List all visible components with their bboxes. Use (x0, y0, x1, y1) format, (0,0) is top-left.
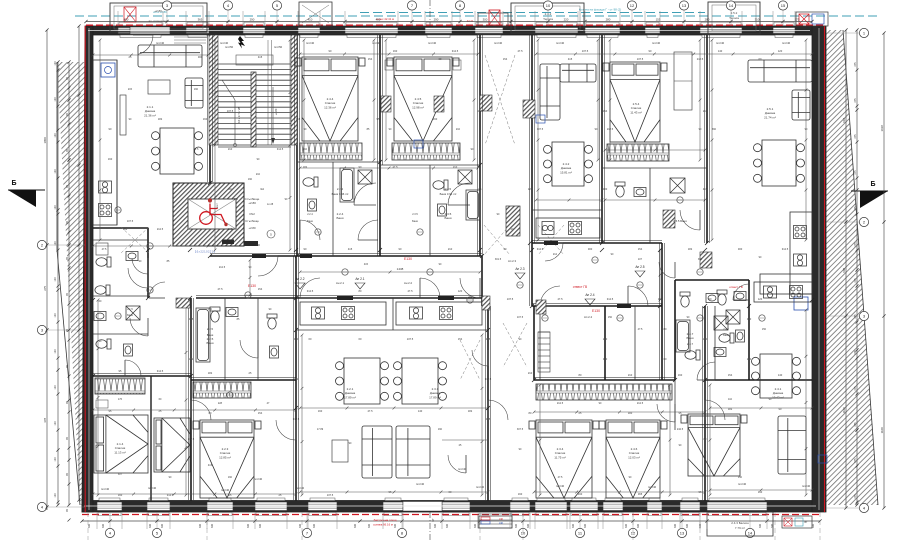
svg-text:154: 154 (728, 373, 733, 377)
svg-text:107.5: 107.5 (227, 109, 234, 113)
svg-text:7.79 m²: 7.79 m² (735, 526, 745, 530)
svg-text:12.36 m²: 12.36 m² (324, 105, 336, 109)
living D armchair (792, 90, 810, 120)
svg-text:154: 154 (458, 337, 463, 341)
long extension dashed verticals below (87, 512, 89, 540)
svg-text:300: 300 (394, 523, 397, 528)
svg-text:Баня: Баня (207, 333, 214, 337)
svg-text:275: 275 (854, 422, 857, 427)
apt B door (240, 340, 258, 358)
svg-text:Чк2: Чк2 (260, 188, 265, 191)
apt1 dashed X decoration (121, 227, 149, 253)
svg-text:2.3.5: 2.3.5 (412, 213, 418, 216)
bottom-left wardrobe (95, 378, 145, 394)
svg-text:415: 415 (568, 57, 573, 61)
dimension rows left side (46, 30, 48, 510)
white split line in top wall (88, 30, 810, 32)
svg-text:2.5.5 Баня: 2.5.5 Баня (673, 219, 687, 223)
apt E bath fixtures (717, 290, 727, 305)
svg-text:300: 300 (759, 523, 762, 528)
svg-text:160: 160 (658, 297, 663, 301)
svg-text:242.5: 242.5 (677, 428, 684, 431)
svg-text:300: 300 (515, 523, 518, 528)
svg-text:17.89 m²: 17.89 m² (344, 395, 356, 399)
svg-text:307.5: 307.5 (517, 428, 524, 431)
svg-text:2.4.7: 2.4.7 (723, 328, 729, 331)
svg-text:2.2.4: 2.2.4 (337, 187, 344, 191)
svg-text:275: 275 (854, 278, 857, 283)
interior walls layer (93, 35, 812, 501)
legend box bottom right with red (782, 516, 812, 528)
svg-text:Б: Б (11, 180, 16, 187)
axis circles right (826, 28, 869, 37)
apt C armchair (332, 440, 348, 462)
svg-text:275: 275 (854, 386, 857, 391)
svg-text:182: 182 (468, 409, 473, 413)
bedroom C bath fixtures (615, 182, 625, 197)
svg-text:вх. площадка: вх. площадка (149, 19, 168, 23)
dimension row below bottom wall (82, 520, 820, 522)
svg-text:120: 120 (54, 133, 57, 138)
svg-text:160: 160 (248, 178, 253, 181)
apt1 sofa (138, 45, 202, 67)
svg-text:160: 160 (438, 428, 443, 431)
svg-text:182: 182 (189, 357, 194, 361)
interior dimension lines with ticks (93, 54, 208, 56)
staircase treads (218, 36, 291, 147)
svg-text:150: 150 (256, 244, 261, 247)
red line left wall (84, 26, 86, 512)
svg-text:Колона на фасада Г - от 98 (2): Колона на фасада Г - от 98 (2) (579, 8, 622, 12)
corridor stair-step symbol at x540 (538, 332, 550, 372)
section line BT bottom (429, 512, 431, 540)
svg-text:415: 415 (296, 117, 301, 121)
tick cluster marks batch2 (146, 248, 150, 252)
svg-text:275: 275 (854, 242, 857, 247)
svg-text:415: 415 (703, 187, 708, 191)
apt C hall marks (472, 350, 488, 366)
svg-text:275: 275 (854, 170, 857, 175)
svg-text:nm=40: nm=40 (296, 486, 305, 490)
elevator shaft (hatched walls) (173, 183, 275, 254)
svg-text:2.1.5: 2.1.5 (127, 308, 133, 311)
svg-text:160: 160 (108, 157, 113, 161)
svg-text:312.5: 312.5 (167, 493, 174, 497)
svg-text:13: 13 (682, 3, 687, 8)
svg-text:nm=40: nm=40 (254, 477, 263, 481)
svg-text:Ап 2.5: Ап 2.5 (635, 265, 644, 269)
svg-text:300: 300 (446, 523, 449, 528)
windows in top wall (118, 22, 163, 37)
vent shaft hatched blocks (381, 96, 391, 112)
opening bottom centre (403, 502, 442, 512)
property boundary line right (843, 30, 878, 505)
svg-text:300: 300 (572, 523, 575, 528)
apt1 low table (148, 80, 170, 94)
svg-text:nm=40: nm=40 (716, 41, 725, 45)
svg-text:300: 300 (161, 523, 164, 528)
svg-text:300: 300 (199, 523, 202, 528)
hall dashed X marks (484, 225, 510, 255)
bedroom C door (680, 210, 700, 230)
svg-text:175: 175 (795, 17, 800, 21)
svg-text:240: 240 (499, 522, 504, 525)
living D kitchen counter vertical (760, 212, 812, 294)
bedroom A bed (295, 57, 365, 141)
stair central stringer (251, 72, 256, 147)
svg-text:182: 182 (303, 165, 308, 169)
svg-text:nm=40: nm=40 (782, 41, 791, 45)
svg-text:Стълбище: Стълбище (245, 219, 259, 223)
svg-text:140: 140 (418, 409, 423, 413)
svg-text:160: 160 (678, 373, 683, 377)
svg-text:10: 10 (521, 531, 526, 536)
right exterior wall (812, 26, 826, 512)
svg-text:210: 210 (228, 147, 233, 151)
bedroom B wardrobe (392, 143, 460, 160)
section line BT top (429, 0, 431, 26)
terrace hatch below bottom wall centre (478, 514, 512, 528)
svg-text:47.5: 47.5 (477, 109, 483, 113)
svg-text:312.5: 312.5 (607, 297, 614, 301)
apt B bed (193, 420, 261, 498)
svg-text:312.5: 312.5 (157, 369, 164, 373)
svg-text:nm=40: nm=40 (156, 41, 165, 45)
svg-text:2.2.4: 2.2.4 (307, 213, 313, 216)
cyan utility line (dashed, full width) (75, 15, 880, 17)
svg-text:2.4.7: 2.4.7 (687, 342, 694, 346)
svg-text:12.85 m²: 12.85 m² (219, 455, 231, 459)
svg-text:2.3.5: 2.3.5 (445, 187, 452, 191)
wall between bottom-left bedrooms (150, 376, 152, 501)
svg-text:1438: 1438 (397, 267, 404, 271)
svg-text:300: 300 (603, 187, 608, 191)
axis circles bottom (105, 512, 114, 538)
svg-text:280: 280 (606, 17, 611, 21)
svg-text:17.89: 17.89 (317, 428, 324, 431)
apt B hall fixtures (267, 314, 277, 329)
svg-text:11.43 m²: 11.43 m² (630, 110, 642, 114)
mid-right hall doors and fixtures (659, 262, 675, 278)
cyan utility line second segment (360, 12, 705, 14)
svg-text:300: 300 (637, 523, 640, 528)
apt C dining table 2 (394, 358, 447, 404)
svg-text:nm=40: nm=40 (148, 486, 157, 490)
windows in bottom wall (97, 498, 122, 516)
svg-text:nm=40: nm=40 (652, 41, 661, 45)
svg-text:300: 300 (294, 337, 299, 341)
svg-text:110: 110 (728, 398, 733, 401)
svg-text:47.5: 47.5 (194, 148, 199, 151)
svg-text:19.43 m²: 19.43 m² (772, 395, 784, 399)
svg-text:360: 360 (712, 128, 717, 131)
svg-text:120: 120 (54, 385, 57, 390)
svg-text:210: 210 (703, 109, 708, 113)
balcony below bottom wall right (707, 512, 773, 536)
svg-text:21.74 m²: 21.74 m² (764, 115, 776, 119)
axis circles left (37, 240, 85, 249)
svg-text:275: 275 (854, 458, 857, 463)
white split line in right wall (818, 28, 820, 510)
svg-text:290: 290 (250, 17, 255, 21)
svg-text:228: 228 (218, 402, 223, 405)
svg-text:Ап 2.3: Ап 2.3 (508, 259, 516, 263)
svg-text:300: 300 (747, 317, 752, 321)
apt D dashed X (503, 323, 527, 367)
svg-text:300: 300 (299, 523, 302, 528)
svg-text:11.75 m²: 11.75 m² (554, 455, 566, 459)
svg-text:107.5: 107.5 (507, 297, 514, 301)
stair landing dim box (236, 55, 273, 65)
apt D bed 2 (599, 420, 667, 498)
svg-text:400: 400 (376, 17, 381, 21)
stair right dim strip (267, 40, 269, 145)
svg-text:300: 300 (527, 523, 530, 528)
svg-text:160: 160 (578, 492, 583, 496)
svg-text:150: 150 (234, 198, 239, 201)
svg-text:120: 120 (758, 297, 763, 301)
svg-text:nm=50: nm=50 (225, 45, 234, 49)
svg-text:2.5.2: 2.5.2 (731, 11, 738, 15)
svg-text:120: 120 (54, 457, 57, 462)
svg-text:154: 154 (503, 57, 508, 61)
svg-text:16 х 17.5 / 28: 16 х 17.5 / 28 (237, 107, 241, 123)
living D stove and sink (794, 226, 807, 239)
svg-text:240: 240 (499, 518, 504, 521)
svg-text:210: 210 (256, 173, 261, 176)
living C kitchen sink and stove (542, 222, 554, 235)
svg-text:160: 160 (518, 492, 523, 496)
svg-text:12.03 m²: 12.03 m² (628, 455, 640, 459)
bottom-left bed 1 (94, 415, 148, 473)
svg-text:47.5: 47.5 (217, 287, 223, 291)
legend box bottom centre with red (479, 516, 512, 528)
bedroom B door (448, 183, 470, 205)
svg-text:160: 160 (228, 227, 233, 231)
apt B tub (196, 308, 210, 362)
bedroom A wardrobe (300, 143, 362, 160)
svg-text:107: 107 (638, 258, 643, 261)
svg-text:Баня 3.96 m²: Баня 3.96 m² (332, 192, 349, 196)
svg-text:107.5: 107.5 (407, 337, 414, 341)
elevator shaft lower extension wall (222, 240, 234, 245)
svg-text:365: 365 (486, 417, 491, 421)
red vent symbol at canopy (124, 7, 136, 22)
staircase side walls (hatched) (209, 35, 218, 145)
svg-text:160: 160 (228, 476, 233, 479)
svg-text:212: 212 (553, 253, 558, 256)
svg-text:1800: 1800 (43, 137, 47, 144)
svg-text:210: 210 (528, 371, 533, 375)
bedroom C wardrobe (607, 144, 669, 161)
svg-text:160: 160 (433, 117, 438, 121)
vent shaft with red marks x490 (467, 10, 508, 26)
svg-text:47.5: 47.5 (407, 289, 413, 293)
apt C sofa 2 (396, 426, 430, 478)
svg-text:nm=40: nm=40 (738, 482, 747, 486)
svg-text:Б: Б (870, 181, 875, 188)
svg-text:300: 300 (247, 523, 250, 528)
mid bath 2 fixtures (x440) (433, 180, 448, 190)
svg-text:275: 275 (854, 98, 857, 103)
svg-text:Баня: Баня (207, 341, 214, 345)
lower-left bathroom2 fixtures (95, 285, 110, 295)
svg-text:120: 120 (54, 313, 57, 318)
svg-text:14: 14 (729, 3, 734, 8)
svg-text:300: 300 (674, 523, 677, 528)
svg-text:415: 415 (208, 463, 213, 467)
apt1 bathroom fixtures (96, 257, 111, 267)
svg-text:1100: 1100 (880, 427, 884, 434)
svg-text:182: 182 (208, 371, 213, 375)
section marker B left (8, 180, 45, 207)
svg-text:Баня: Баня (687, 336, 694, 340)
entrance mat lines (174, 36, 206, 38)
balcony outline top-right (708, 2, 760, 34)
horizontal double-line walls overlay (93, 35, 710, 500)
apt C kitchen counter 2 (396, 302, 482, 325)
apt B wardrobe (193, 382, 251, 398)
svg-text:160: 160 (393, 49, 398, 53)
apt1 dining table (152, 128, 203, 174)
apt D wardrobe long (536, 384, 672, 400)
svg-text:154: 154 (603, 109, 608, 113)
svg-text:280: 280 (705, 17, 710, 21)
svg-text:Тераса: Тераса (729, 16, 739, 20)
apt E kitchen hatch counter (754, 282, 812, 302)
mid-left hall doors (132, 258, 148, 274)
svg-text:275: 275 (854, 134, 857, 139)
bedroom A door (354, 183, 376, 205)
corridor long dim line (300, 271, 480, 273)
mid bath 1 tub (340, 168, 354, 202)
svg-text:47.5: 47.5 (558, 476, 563, 479)
dimension row above top wall (86, 21, 812, 23)
svg-text:301.5: 301.5 (495, 258, 502, 261)
svg-text:275: 275 (854, 350, 857, 355)
svg-text:365: 365 (198, 17, 203, 21)
entrance canopy top-left (110, 3, 207, 32)
svg-text:120: 120 (54, 277, 57, 282)
apt E sofa (778, 416, 806, 474)
interior vertical dimension lines (99, 40, 101, 240)
svg-text:182: 182 (123, 227, 128, 231)
bottom-left nightstand (96, 400, 108, 408)
svg-text:300: 300 (198, 55, 203, 59)
svg-text:nm=40: nm=40 (220, 41, 229, 45)
corridor door thresholds (dark bars) (252, 254, 266, 258)
svg-text:nm=40: nm=40 (101, 487, 110, 491)
svg-text:300: 300 (259, 523, 262, 528)
room labels (144, 105, 156, 117)
svg-text:Баня: Баня (412, 220, 418, 223)
svg-text:300: 300 (628, 411, 633, 415)
svg-text:107.5: 107.5 (637, 57, 644, 61)
svg-text:107.5: 107.5 (517, 316, 524, 319)
svg-text:E130: E130 (248, 284, 256, 288)
extension lines above top wall (117, 11, 119, 26)
svg-text:490: 490 (124, 17, 129, 21)
svg-text:12: 12 (631, 531, 636, 536)
svg-text:47.5: 47.5 (392, 165, 398, 169)
doors bottom (191, 400, 211, 420)
svg-text:Ап 2.1: Ап 2.1 (355, 277, 364, 281)
svg-text:nm=40: nm=40 (428, 41, 437, 45)
svg-text:160: 160 (194, 88, 199, 91)
svg-text:378: 378 (43, 417, 47, 422)
svg-text:+2.80: +2.80 (274, 108, 278, 115)
svg-text:160: 160 (118, 493, 123, 497)
white split line in bottom wall (84, 505, 816, 507)
svg-text:21.36 m²: 21.36 m² (144, 113, 156, 117)
svg-text:210: 210 (628, 373, 633, 377)
extra left dim ticks and numbers (57, 69, 60, 72)
apt E bedroom bed (681, 414, 747, 476)
svg-text:120: 120 (458, 289, 463, 293)
legend box with red hatch top-right corner (796, 12, 828, 26)
bottom-left bed 2 (154, 418, 190, 472)
svg-text:415: 415 (364, 263, 369, 266)
svg-text:Баня: Баня (127, 314, 133, 317)
svg-text:160: 160 (318, 409, 323, 413)
svg-text:11.13 m²: 11.13 m² (114, 450, 126, 454)
apt C kitchen counter 1 (300, 302, 386, 325)
thin partitions (93, 162, 715, 430)
svg-text:312.5: 312.5 (782, 247, 789, 251)
svg-text:120: 120 (54, 421, 57, 426)
svg-text:отвест ГВ: отвест ГВ (573, 285, 587, 289)
svg-text:154: 154 (638, 247, 643, 251)
lower-left bathroom3 fixtures (96, 339, 111, 349)
svg-text:2.4.3 Балкон: 2.4.3 Балкон (731, 521, 749, 525)
svg-text:300: 300 (211, 523, 214, 528)
living C kitchen counter (536, 218, 600, 238)
apt1 bath door (128, 268, 148, 288)
svg-text:nm=40: nm=40 (476, 485, 485, 489)
svg-text:120: 120 (54, 205, 57, 210)
svg-text:300: 300 (149, 523, 152, 528)
svg-text:Баня: Баня (723, 334, 729, 337)
svg-text:+2.80: +2.80 (248, 201, 256, 205)
svg-text:nm=40: nm=40 (556, 484, 565, 488)
svg-text:300: 300 (771, 523, 774, 528)
apt C sofa 1 (362, 426, 392, 478)
svg-text:275: 275 (43, 285, 47, 290)
svg-text:182: 182 (688, 247, 693, 251)
living D fridge blue box (794, 297, 808, 310)
entrance opening top-left (130, 27, 170, 34)
svg-text:210: 210 (448, 247, 453, 251)
balcony outline top-centre (511, 3, 584, 33)
svg-text:182: 182 (728, 407, 733, 411)
svg-text:182: 182 (158, 117, 163, 121)
svg-text:415: 415 (258, 55, 263, 59)
svg-text:160: 160 (203, 117, 208, 121)
svg-text:17.89 m²: 17.89 m² (429, 395, 441, 399)
vent shaft hatch x510 y210 (506, 206, 520, 236)
svg-text:300: 300 (368, 523, 371, 528)
extension lines below bottom wall (96, 512, 98, 529)
svg-text:120: 120 (54, 349, 57, 354)
apt C dining table 1 (336, 358, 389, 404)
svg-text:Ап 2.4: Ап 2.4 (584, 315, 592, 319)
svg-text:290: 290 (434, 17, 439, 21)
svg-text:307: 307 (118, 473, 123, 476)
red regulation line bottom (dashed) (82, 514, 822, 516)
svg-text:Баня: Баня (445, 216, 452, 220)
svg-text:120: 120 (778, 49, 783, 53)
svg-text:120: 120 (54, 169, 57, 174)
